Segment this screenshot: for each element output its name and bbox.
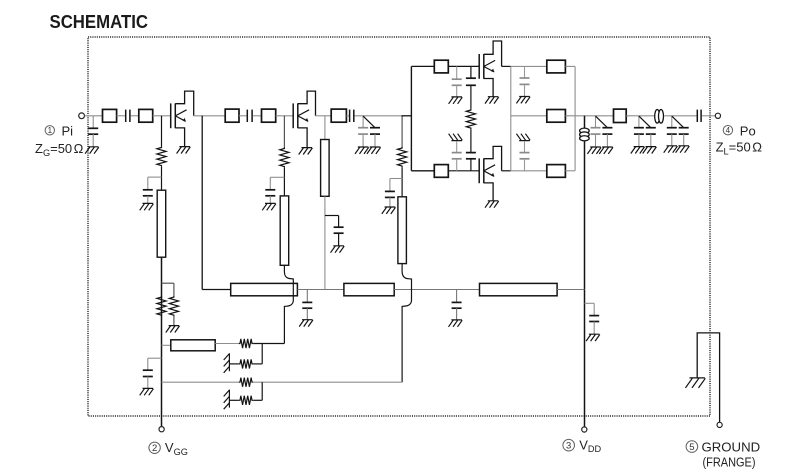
capacitor bottom in 1 (456, 141, 458, 153)
wire R10 lead (229, 399, 238, 401)
svg-text:5: 5 (689, 442, 694, 453)
svg-text:(FRANGE): (FRANGE) (703, 455, 756, 469)
dashed module border (88, 37, 710, 416)
stub line S1 (157, 190, 166, 257)
wire top lead (411, 65, 434, 67)
capacitor top in 2 (470, 66, 472, 78)
svg-text:1: 1 (48, 126, 53, 135)
capacitor VGG bypass (148, 357, 162, 359)
svg-text:ZL=50Ω: ZL=50Ω (716, 140, 763, 157)
wire top (448, 65, 479, 67)
ground row cap 2 (449, 320, 463, 327)
svg-text:Pi: Pi (62, 123, 74, 138)
resistor R8 (239, 359, 253, 368)
ground flange symbol (685, 378, 705, 388)
wire R8 link (261, 344, 263, 364)
wire drain2 cap branch (325, 215, 339, 217)
wire (470, 129, 472, 152)
wire row to VDD (557, 289, 584, 291)
wire (346, 115, 349, 117)
stripline box Z5 (331, 109, 346, 122)
resistor R9 (239, 378, 253, 387)
ground gate3 cap (382, 207, 396, 214)
ground VGG cap (140, 388, 154, 395)
wire (664, 115, 697, 117)
wire cap branch (270, 176, 284, 178)
stripline box Z4 (262, 109, 276, 122)
wire Q4 drain out (502, 170, 511, 172)
svg-text:SCHEMATIC: SCHEMATIC (50, 11, 149, 32)
wire VDD cap branch (585, 302, 595, 304)
wire (161, 167, 163, 190)
capacitor VDD bypass (589, 315, 599, 317)
wire R8 lead (229, 363, 238, 365)
wire R10 link (261, 382, 263, 400)
wire stub2 jog (284, 265, 293, 343)
stripline box Z2 (139, 109, 153, 122)
capacitor bottom in 2 (466, 152, 476, 154)
stripline box ZD gate bias (171, 340, 215, 351)
svg-text:2: 2 (152, 443, 157, 454)
transistor Q4 (478, 158, 480, 183)
label 1 Pi (45, 126, 54, 135)
ground drain2 cap (331, 246, 345, 253)
ground VDD cap (586, 334, 600, 341)
wire to bias box (162, 344, 171, 346)
wire gate2 drop (283, 116, 285, 148)
wire row (297, 289, 344, 291)
capacitor C2 series (246, 110, 248, 122)
wire drain1 feed drop (201, 116, 203, 290)
ground R6 (166, 326, 180, 333)
port 2 VGG circle (159, 427, 164, 432)
ground top cap (449, 97, 463, 104)
ground comb top (516, 97, 530, 104)
capacitor comb top (524, 66, 526, 78)
wire bottom join (565, 170, 575, 172)
stub line S3 (398, 197, 407, 264)
capacitor gate2 bypass (265, 189, 275, 191)
ground Q3 source (485, 97, 499, 104)
inductor VDD choke (580, 128, 590, 133)
wire (283, 168, 285, 196)
stripline box Z8 top (547, 60, 566, 73)
ground input cap (85, 147, 99, 154)
stripline box Z9 middle (547, 110, 566, 123)
wire R7 to stub2 (253, 343, 284, 345)
svg-text:ZG=50Ω: ZG=50Ω (35, 141, 84, 158)
transistor Q2 (292, 103, 294, 128)
port 1 Pi circle (79, 113, 85, 119)
wire R9 to stage3 (253, 381, 402, 383)
stripline box ZC drain feed 3 (480, 283, 558, 295)
wire to Q1 gate (153, 115, 171, 117)
wire gate3 drop (401, 116, 403, 147)
wire Q3 drain out (502, 65, 511, 67)
wire drain2 tail (324, 196, 326, 289)
ground R8 side (224, 353, 230, 373)
wire stub3 jog (402, 264, 411, 383)
wire cap branch (390, 178, 402, 180)
ground gate2 cap (262, 203, 276, 210)
wire (626, 115, 654, 117)
ground bottom cap inverted (449, 134, 463, 141)
wire drain2 rail (316, 115, 332, 117)
resistor R4 balance (466, 109, 475, 130)
ground comb bottom inverted (516, 134, 530, 141)
wire rail black (402, 115, 412, 117)
capacitor row bypass 1 (306, 290, 308, 303)
label 2 VGG (149, 442, 160, 453)
wire to Q2 gate (276, 115, 294, 117)
label 4 Po (723, 126, 732, 135)
wire gate1 drop (161, 116, 163, 147)
wire to output port (702, 115, 715, 117)
wire ground terminal (697, 333, 719, 422)
wire row (394, 289, 479, 291)
wire (253, 115, 262, 117)
wire middle rail (511, 115, 547, 117)
wire splitter vertical (410, 66, 412, 170)
port 4 Po circle (715, 113, 720, 118)
capacitor C4 series (696, 110, 698, 122)
label 5 GROUND (686, 441, 698, 453)
stripline box ZB drain feed 2 (344, 283, 394, 295)
ground Q4 source (485, 201, 499, 208)
wire (131, 115, 139, 117)
wire (355, 115, 402, 117)
capacitor drain2 bypass (334, 226, 344, 228)
wire (239, 115, 247, 117)
wire cap branch (148, 176, 162, 178)
port 3 VDD circle (582, 427, 587, 432)
transistor Q3 (478, 54, 480, 79)
wire (401, 167, 403, 197)
stripline box ZA drain feed 1 (231, 283, 298, 295)
stripline box Z6 top (434, 60, 448, 73)
resistor R5 series VGG (157, 296, 166, 317)
ground Q2 source (299, 148, 313, 155)
capacitor top in 1 (456, 66, 458, 79)
wire (173, 316, 175, 325)
svg-text:VDD: VDD (579, 437, 601, 454)
port 5 ground circle (717, 422, 722, 427)
resistor R7 (239, 339, 253, 348)
capacitor row bypass 2 (456, 290, 458, 303)
wire output join vertical (574, 66, 576, 170)
resistor R1 gate1 (157, 146, 166, 167)
trimmer capacitor pair CT4 (671, 116, 673, 128)
wire output rail (565, 115, 613, 117)
label 3 VDD (563, 439, 575, 451)
trimmer capacitor pair CT2 (595, 116, 597, 128)
wire combiner vertical (510, 66, 512, 170)
stub line S4 drain2 (321, 140, 330, 197)
resistor R3 gate3 (398, 147, 407, 168)
wire input (85, 115, 103, 117)
wire (117, 115, 125, 117)
inductor L1 series (655, 110, 660, 124)
wire top join (565, 65, 575, 67)
wire drain1 rail (194, 115, 226, 117)
resistor R10 (239, 396, 253, 405)
stripline box Z1 (103, 109, 117, 122)
trimmer capacitor pair CT1 (362, 116, 364, 128)
capacitor gate3 bypass (385, 190, 395, 192)
svg-text:4: 4 (726, 126, 731, 135)
svg-text:GROUND: GROUND (702, 439, 761, 454)
capacitor C3 series (349, 110, 351, 122)
svg-text:3: 3 (566, 441, 571, 452)
stripline box Z3 (225, 109, 239, 122)
stripline box Z7 bottom (434, 165, 448, 178)
wire branch Rb (162, 282, 174, 284)
wire top rail to box (511, 65, 547, 67)
trimmer capacitor pair CT3 (638, 116, 640, 128)
capacitor input shunt (92, 116, 94, 129)
transistor Q1 (170, 103, 172, 128)
wire R9 row (162, 381, 239, 383)
wire drain2 drop (324, 116, 326, 140)
ground Q1 source (177, 147, 191, 154)
wire VDD line (584, 116, 586, 427)
svg-text:VGG: VGG (165, 440, 188, 457)
capacitor C1 series (125, 110, 127, 122)
resistor R6 shunt (169, 296, 178, 317)
resistor R2 gate2 (280, 147, 289, 168)
wire bottom (448, 170, 479, 172)
ground R10 side (224, 390, 230, 410)
capacitor gate1 bypass (143, 189, 153, 191)
wire VGG line (161, 257, 163, 426)
stub line S2 (280, 196, 289, 265)
stripline box Z11 (614, 109, 627, 122)
svg-text:Po: Po (740, 123, 756, 138)
capacitor comb bottom (524, 141, 526, 153)
ground gate1 cap (140, 203, 154, 210)
wire (215, 343, 239, 345)
ground row cap 1 (299, 320, 313, 327)
wire bottom rail to box (511, 170, 547, 172)
stripline box Z10 bottom (547, 165, 566, 178)
wire bottom lead (411, 170, 434, 172)
